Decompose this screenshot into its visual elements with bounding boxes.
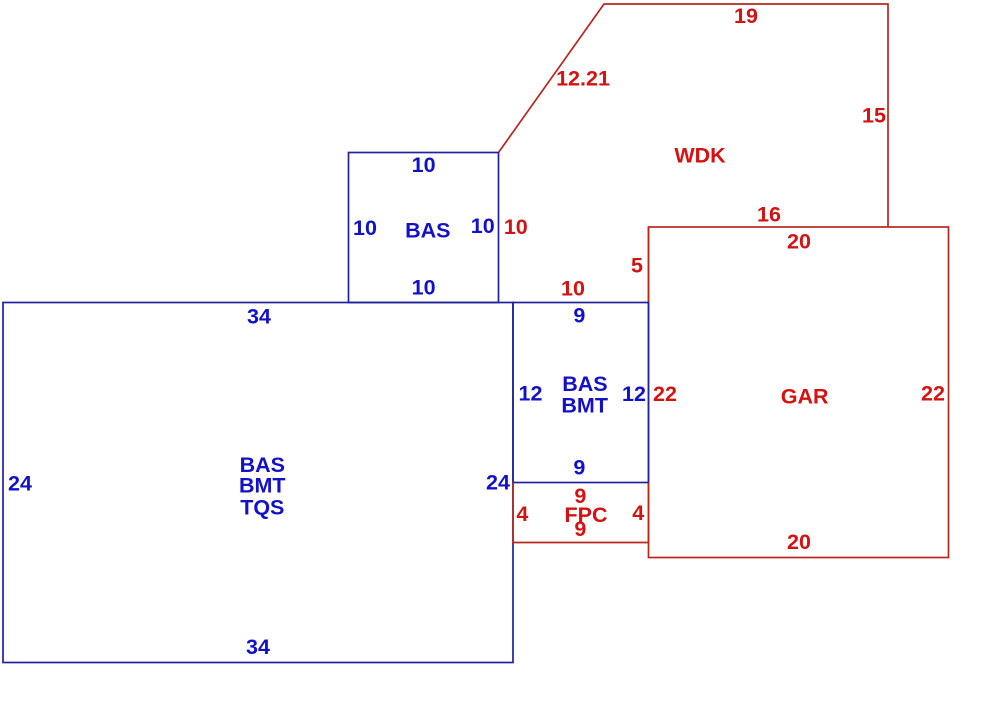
big BAS/BMT/TQS rect (blue) <box>3 303 513 663</box>
svg-text:12: 12 <box>519 381 543 405</box>
FPC porch (red, open top) <box>513 483 649 543</box>
svg-text:TQS: TQS <box>240 496 284 520</box>
svg-text:34: 34 <box>247 305 271 329</box>
svg-text:12: 12 <box>622 382 646 406</box>
svg-text:9: 9 <box>573 303 585 327</box>
svg-text:10: 10 <box>471 214 495 238</box>
svg-text:19: 19 <box>734 4 758 28</box>
BAS/BMT middle rect (blue) <box>513 303 649 483</box>
svg-text:24: 24 <box>486 471 510 495</box>
wire: 5ft segment left of GAR <box>648 227 650 303</box>
svg-text:BAS: BAS <box>405 218 450 242</box>
svg-text:34: 34 <box>246 635 270 659</box>
svg-text:GAR: GAR <box>781 384 829 408</box>
WDK deck outline (red) <box>499 4 889 227</box>
svg-text:20: 20 <box>787 230 811 254</box>
svg-text:9: 9 <box>573 456 585 480</box>
svg-text:12.21: 12.21 <box>556 67 610 91</box>
svg-text:16: 16 <box>757 203 781 227</box>
svg-text:WDK: WDK <box>674 144 726 168</box>
svg-text:4: 4 <box>632 501 644 525</box>
svg-text:BMT: BMT <box>239 474 286 498</box>
svg-text:10: 10 <box>412 275 436 299</box>
svg-text:10: 10 <box>353 216 377 240</box>
BAS small square (blue) <box>349 153 499 303</box>
svg-text:10: 10 <box>412 153 436 177</box>
svg-text:10: 10 <box>504 215 528 239</box>
svg-text:9: 9 <box>574 517 586 541</box>
svg-text:20: 20 <box>787 530 811 554</box>
svg-text:22: 22 <box>921 382 945 406</box>
svg-text:BAS: BAS <box>562 372 607 396</box>
svg-text:4: 4 <box>516 502 528 526</box>
svg-text:BMT: BMT <box>561 394 608 418</box>
svg-text:5: 5 <box>631 254 643 278</box>
svg-text:24: 24 <box>8 471 32 495</box>
svg-text:10: 10 <box>561 277 585 301</box>
svg-text:15: 15 <box>862 104 886 128</box>
GAR garage rect (red) <box>649 227 949 558</box>
svg-text:22: 22 <box>653 382 677 406</box>
